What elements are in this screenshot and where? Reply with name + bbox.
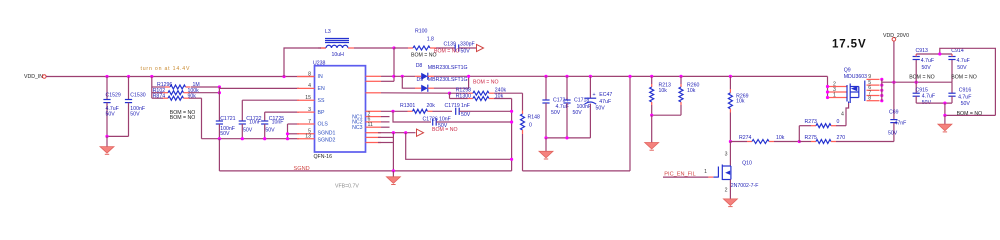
svg-text:47uF: 47uF	[599, 99, 611, 105]
svg-text:11: 11	[368, 122, 373, 128]
capacitor C69 47nF	[893, 82, 895, 119]
junction D9 riser	[467, 75, 470, 78]
junction R-block rail	[150, 75, 153, 78]
svg-text:100nF: 100nF	[577, 104, 592, 110]
wire cap-gnd join row	[202, 138, 288, 140]
svg-text:8: 8	[308, 71, 311, 77]
svg-text:C1530: C1530	[130, 92, 145, 98]
svg-text:C916: C916	[959, 88, 972, 94]
svg-text:BP: BP	[318, 110, 325, 116]
svg-text:4: 4	[841, 111, 844, 117]
svg-text:1.8: 1.8	[427, 36, 434, 42]
svg-text:BOM = NO: BOM = NO	[432, 127, 458, 133]
svg-text:50V: 50V	[461, 112, 471, 118]
svg-text:R874: R874	[153, 93, 166, 99]
resistor R1298 240k	[450, 92, 468, 94]
svg-text:SS: SS	[318, 98, 325, 104]
svg-text:R1300: R1300	[456, 94, 471, 100]
capacitor C1726 10nF 50V	[432, 118, 434, 125]
wire FB rail drop	[449, 93, 451, 98]
junction C913 col	[915, 81, 918, 84]
svg-text:BOM = NO: BOM = NO	[951, 75, 977, 81]
svg-text:10k: 10k	[776, 135, 785, 141]
wire SW1 to node	[381, 80, 394, 82]
wire gate node riser	[798, 126, 800, 142]
resistor R273 0	[799, 125, 811, 127]
svg-text:50V: 50V	[243, 128, 253, 134]
svg-text:Q10: Q10	[742, 160, 752, 166]
svg-text:330pF: 330pF	[460, 41, 475, 47]
wire BP net	[265, 111, 299, 113]
junction cap top	[938, 52, 941, 55]
junction R213 top	[650, 75, 653, 78]
wire PGND2 to rail	[378, 136, 393, 138]
op-amp U1 — IC U238 boost controller QFN-16	[315, 66, 366, 152]
junction C1719 out	[510, 110, 513, 113]
resistor R100	[394, 47, 408, 49]
svg-text:R1301: R1301	[400, 103, 415, 109]
svg-text:turn on at 14.4V: turn on at 14.4V	[141, 66, 191, 72]
svg-text:VDD_IN: VDD_IN	[24, 74, 43, 80]
svg-text:C1726: C1726	[423, 116, 438, 122]
junction comp return	[510, 158, 513, 161]
capacitor EC47 47uF electrolytic	[589, 76, 591, 98]
svg-text:4.7uF: 4.7uF	[921, 58, 934, 64]
svg-text:50V: 50V	[461, 49, 471, 55]
resistor R874	[152, 97, 163, 99]
junction R269 top	[729, 75, 732, 78]
svg-text:10k: 10k	[687, 88, 696, 94]
svg-text:10nF: 10nF	[439, 116, 451, 122]
wire R874 to sgnd join	[201, 98, 203, 139]
junction FB node	[448, 92, 451, 95]
svg-text:17.5V: 17.5V	[832, 39, 867, 51]
resistor R1300 10k	[450, 98, 468, 100]
capacitor C914 4.7uF	[951, 60, 953, 83]
wire cap bottom rail	[916, 102, 952, 104]
capacitor C139 330pF	[436, 47, 455, 49]
wire EPAD to rail	[378, 142, 393, 144]
wire D9 branch drop	[402, 76, 415, 88]
wire SGND2 net	[288, 138, 300, 140]
svg-text:IN: IN	[318, 74, 323, 80]
svg-text:1: 1	[704, 169, 707, 175]
svg-text:SGND: SGND	[294, 166, 310, 172]
svg-text:3: 3	[725, 152, 728, 158]
junction R273 R275 node	[798, 140, 801, 143]
svg-text:D9: D9	[417, 77, 424, 83]
svg-text:50V: 50V	[265, 128, 275, 134]
ground R213	[651, 115, 653, 142]
svg-text:13: 13	[305, 134, 311, 140]
svg-text:OLS: OLS	[318, 122, 329, 128]
svg-text:BOM = NO: BOM = NO	[473, 80, 499, 86]
resistor R275 270	[799, 141, 811, 143]
wire join to SGND bus	[218, 139, 220, 171]
wire riser to L3	[284, 48, 326, 77]
junction SW top	[392, 46, 395, 49]
svg-text:R273: R273	[805, 119, 818, 125]
svg-text:MBR230LSFT1G: MBR230LSFT1G	[428, 77, 468, 83]
svg-text:50V: 50V	[551, 110, 561, 116]
svg-text:D8: D8	[416, 63, 423, 69]
svg-text:BOM = NO: BOM = NO	[957, 111, 983, 117]
junction Cout2	[565, 75, 568, 78]
resistor R148 0	[522, 93, 524, 110]
junction cap join b	[565, 136, 568, 139]
junction C1530	[127, 75, 130, 78]
svg-text:R100: R100	[415, 28, 428, 34]
svg-text:MDU3603: MDU3603	[844, 74, 867, 80]
svg-text:U238: U238	[313, 61, 326, 67]
svg-text:50V: 50V	[130, 112, 140, 118]
svg-text:10k: 10k	[659, 88, 668, 94]
svg-text:50V: 50V	[596, 105, 606, 111]
svg-text:NC3: NC3	[352, 125, 362, 131]
svg-text:3: 3	[308, 107, 311, 113]
junction gnd right	[943, 114, 946, 117]
no-connect arrow PGND	[417, 129, 424, 136]
svg-text:BOM = NO: BOM = NO	[411, 53, 437, 59]
no-connect arrow snubber	[477, 44, 484, 51]
svg-text:0: 0	[837, 119, 840, 125]
svg-text:R148: R148	[528, 115, 541, 121]
svg-text:C69: C69	[889, 110, 899, 116]
svg-text:0: 0	[529, 123, 532, 129]
capacitor C1719 1nF 50V	[455, 108, 457, 115]
junction C69 tap	[892, 81, 895, 84]
junction cap bottom	[943, 102, 946, 105]
junction R260 top	[679, 75, 682, 78]
junction R274 left	[729, 140, 732, 143]
svg-text:1: 1	[833, 92, 836, 98]
diode D9 MBR230LSFT1G BOM=NO	[415, 87, 421, 89]
capacitor C1529	[106, 77, 108, 100]
junction EC47 top	[589, 75, 592, 78]
wire FB net	[381, 92, 450, 94]
svg-text:4.7uF: 4.7uF	[958, 94, 971, 100]
svg-text:10nF: 10nF	[249, 120, 261, 126]
wire SGND1 net	[288, 133, 300, 135]
wire OLS net	[288, 123, 300, 125]
wire R-block left rail	[151, 77, 153, 99]
junction PGND1 b	[404, 131, 407, 134]
junction R1296 right	[218, 85, 221, 88]
resistor R1301 20k	[408, 110, 413, 112]
svg-text:R274: R274	[739, 135, 752, 141]
junction SGND1 drop	[286, 132, 289, 135]
capacitor C1530	[128, 77, 130, 100]
capacitor C1718 100nF	[566, 76, 568, 100]
capacitor C916 4.7uF	[951, 82, 953, 93]
wire R213 R260 join	[652, 114, 681, 116]
ground input caps	[106, 136, 108, 146]
svg-text:C914: C914	[951, 48, 964, 54]
wire comp return	[406, 133, 512, 160]
wire SS net	[242, 99, 299, 101]
svg-text:+: +	[593, 92, 596, 98]
junction PGND1 a	[392, 131, 395, 134]
svg-text:240k: 240k	[495, 88, 507, 94]
wire R148 foot to riser	[523, 170, 631, 172]
ground output caps	[545, 138, 547, 151]
svg-text:4: 4	[308, 83, 311, 89]
resistor R213 10k	[651, 76, 653, 84]
junction cap join a	[544, 136, 547, 139]
resistor R269 10k	[729, 76, 731, 89]
resistor R1296	[152, 86, 165, 88]
svg-text:15: 15	[305, 95, 311, 101]
wire COMP drop	[393, 111, 431, 122]
svg-text:VDD_20V0: VDD_20V0	[883, 33, 909, 39]
svg-text:SGND2: SGND2	[318, 137, 336, 143]
svg-text:EN: EN	[318, 86, 325, 92]
junction L3 riser	[282, 75, 285, 78]
svg-text:4.7uF: 4.7uF	[957, 58, 970, 64]
wire L3 to SW node	[354, 47, 394, 49]
junction R102 right	[218, 91, 221, 94]
wire R273 to Q9 gate	[846, 103, 849, 126]
svg-text:8: 8	[868, 96, 871, 102]
svg-text:10k: 10k	[736, 98, 745, 104]
svg-text:BOM = NO: BOM = NO	[170, 115, 196, 121]
resistor R260 10k	[680, 76, 682, 84]
svg-text:C1719: C1719	[445, 103, 460, 109]
wire vout right riser	[629, 76, 631, 170]
svg-text:10uH: 10uH	[332, 52, 345, 58]
svg-text:4.7uF: 4.7uF	[922, 94, 935, 100]
wire SW to diodes	[394, 75, 415, 77]
svg-text:R275: R275	[805, 135, 818, 141]
wire R1300 bottom rail	[511, 99, 513, 171]
svg-text:C1721: C1721	[220, 116, 235, 122]
svg-text:BOM = NO: BOM = NO	[909, 75, 935, 81]
wire PGND rail to SGND	[392, 133, 394, 171]
resistor R102	[152, 92, 163, 94]
svg-text:47nF: 47nF	[895, 121, 907, 127]
junction COMP node	[391, 110, 394, 113]
junction join C1725	[263, 137, 266, 140]
capacitor C913 4.7uF	[915, 60, 917, 83]
junction join C1722	[241, 137, 244, 140]
wire PGND1 net	[378, 132, 416, 134]
svg-text:Q9: Q9	[844, 68, 851, 74]
svg-text:50V: 50V	[957, 65, 967, 71]
wire SW2 to node	[381, 75, 394, 77]
svg-text:QFN-16: QFN-16	[314, 154, 333, 160]
svg-text:7: 7	[308, 119, 311, 125]
svg-text:VFB=0.7V: VFB=0.7V	[335, 184, 359, 190]
junction vout riser top	[628, 75, 631, 78]
svg-text:C139: C139	[444, 41, 457, 47]
capacitor C1721	[216, 120, 223, 122]
wire bus to Q9	[827, 76, 829, 97]
svg-text:10k: 10k	[495, 94, 504, 100]
power VDD_20V0	[893, 41, 895, 82]
svg-text:MBR230LSFT1G: MBR230LSFT1G	[428, 65, 468, 71]
svg-text:SGND1: SGND1	[318, 131, 336, 137]
svg-text:C913: C913	[916, 48, 929, 54]
svg-text:10nF: 10nF	[272, 120, 284, 126]
capacitor C1724 4.7uF	[545, 76, 547, 100]
wire cap top rail	[916, 53, 952, 55]
wire D9 cathode riser	[434, 76, 469, 88]
transistor Q9 MDU3603	[828, 86, 847, 88]
wire EN to pin	[219, 87, 299, 89]
svg-text:20k: 20k	[427, 103, 436, 109]
svg-text:270: 270	[837, 135, 846, 141]
junction SGND gnd tap	[392, 169, 395, 172]
wire SW node vertical	[393, 48, 395, 81]
junction R213 join	[650, 114, 653, 117]
svg-text:50V: 50V	[220, 131, 230, 137]
transistor Q10 2N7002-7-F	[729, 142, 731, 167]
junction join C1721	[218, 137, 221, 140]
ground right caps	[944, 115, 946, 124]
junction C1529	[105, 75, 108, 78]
wire D8 cathode to bus	[434, 75, 828, 77]
capacitor C1722	[239, 120, 246, 122]
capacitor C915 4.7uF	[915, 82, 917, 93]
wire EN rail	[218, 87, 220, 121]
wire PIC_EN_FIL	[663, 176, 708, 178]
svg-text:R1298: R1298	[456, 88, 471, 94]
wire input cap join	[107, 135, 129, 137]
wire COMP net	[381, 110, 408, 112]
wire Q9 drain to vout	[882, 81, 952, 83]
wire bottom to right	[944, 103, 946, 115]
junction input gnd	[105, 135, 108, 138]
svg-text:2N7002-7-F: 2N7002-7-F	[731, 183, 759, 189]
inductor L3 10uH	[320, 47, 326, 49]
ground SGND	[392, 171, 394, 177]
svg-text:50V: 50V	[573, 110, 583, 116]
svg-text:C1529: C1529	[106, 92, 121, 98]
svg-text:2: 2	[725, 187, 728, 193]
ground Q10	[729, 180, 731, 199]
wire SGND bus	[219, 170, 511, 172]
capacitor C1725	[261, 120, 268, 122]
resistor R274 10k	[730, 141, 747, 143]
wire VDD_IN bus	[46, 76, 314, 78]
svg-text:L3: L3	[325, 29, 331, 35]
svg-text:PIC_EN_FIL: PIC_EN_FIL	[664, 172, 695, 178]
svg-text:50V: 50V	[961, 101, 971, 107]
junction D9 branch	[401, 75, 404, 78]
junction SW2 row	[392, 75, 395, 78]
svg-text:50V: 50V	[922, 65, 932, 71]
svg-text:50V: 50V	[106, 112, 116, 118]
junction Cout1	[544, 75, 547, 78]
svg-text:90k: 90k	[188, 93, 197, 99]
svg-text:EC47: EC47	[599, 92, 612, 98]
wire output cap join	[546, 137, 590, 139]
junction C1726 out	[510, 120, 513, 123]
junction join OLS	[286, 137, 289, 140]
svg-text:BOM = NO: BOM = NO	[434, 49, 460, 55]
svg-text:1nF: 1nF	[461, 103, 470, 109]
svg-text:50V: 50V	[888, 131, 898, 137]
diode D8 MBR230LSFT1G	[415, 75, 421, 77]
